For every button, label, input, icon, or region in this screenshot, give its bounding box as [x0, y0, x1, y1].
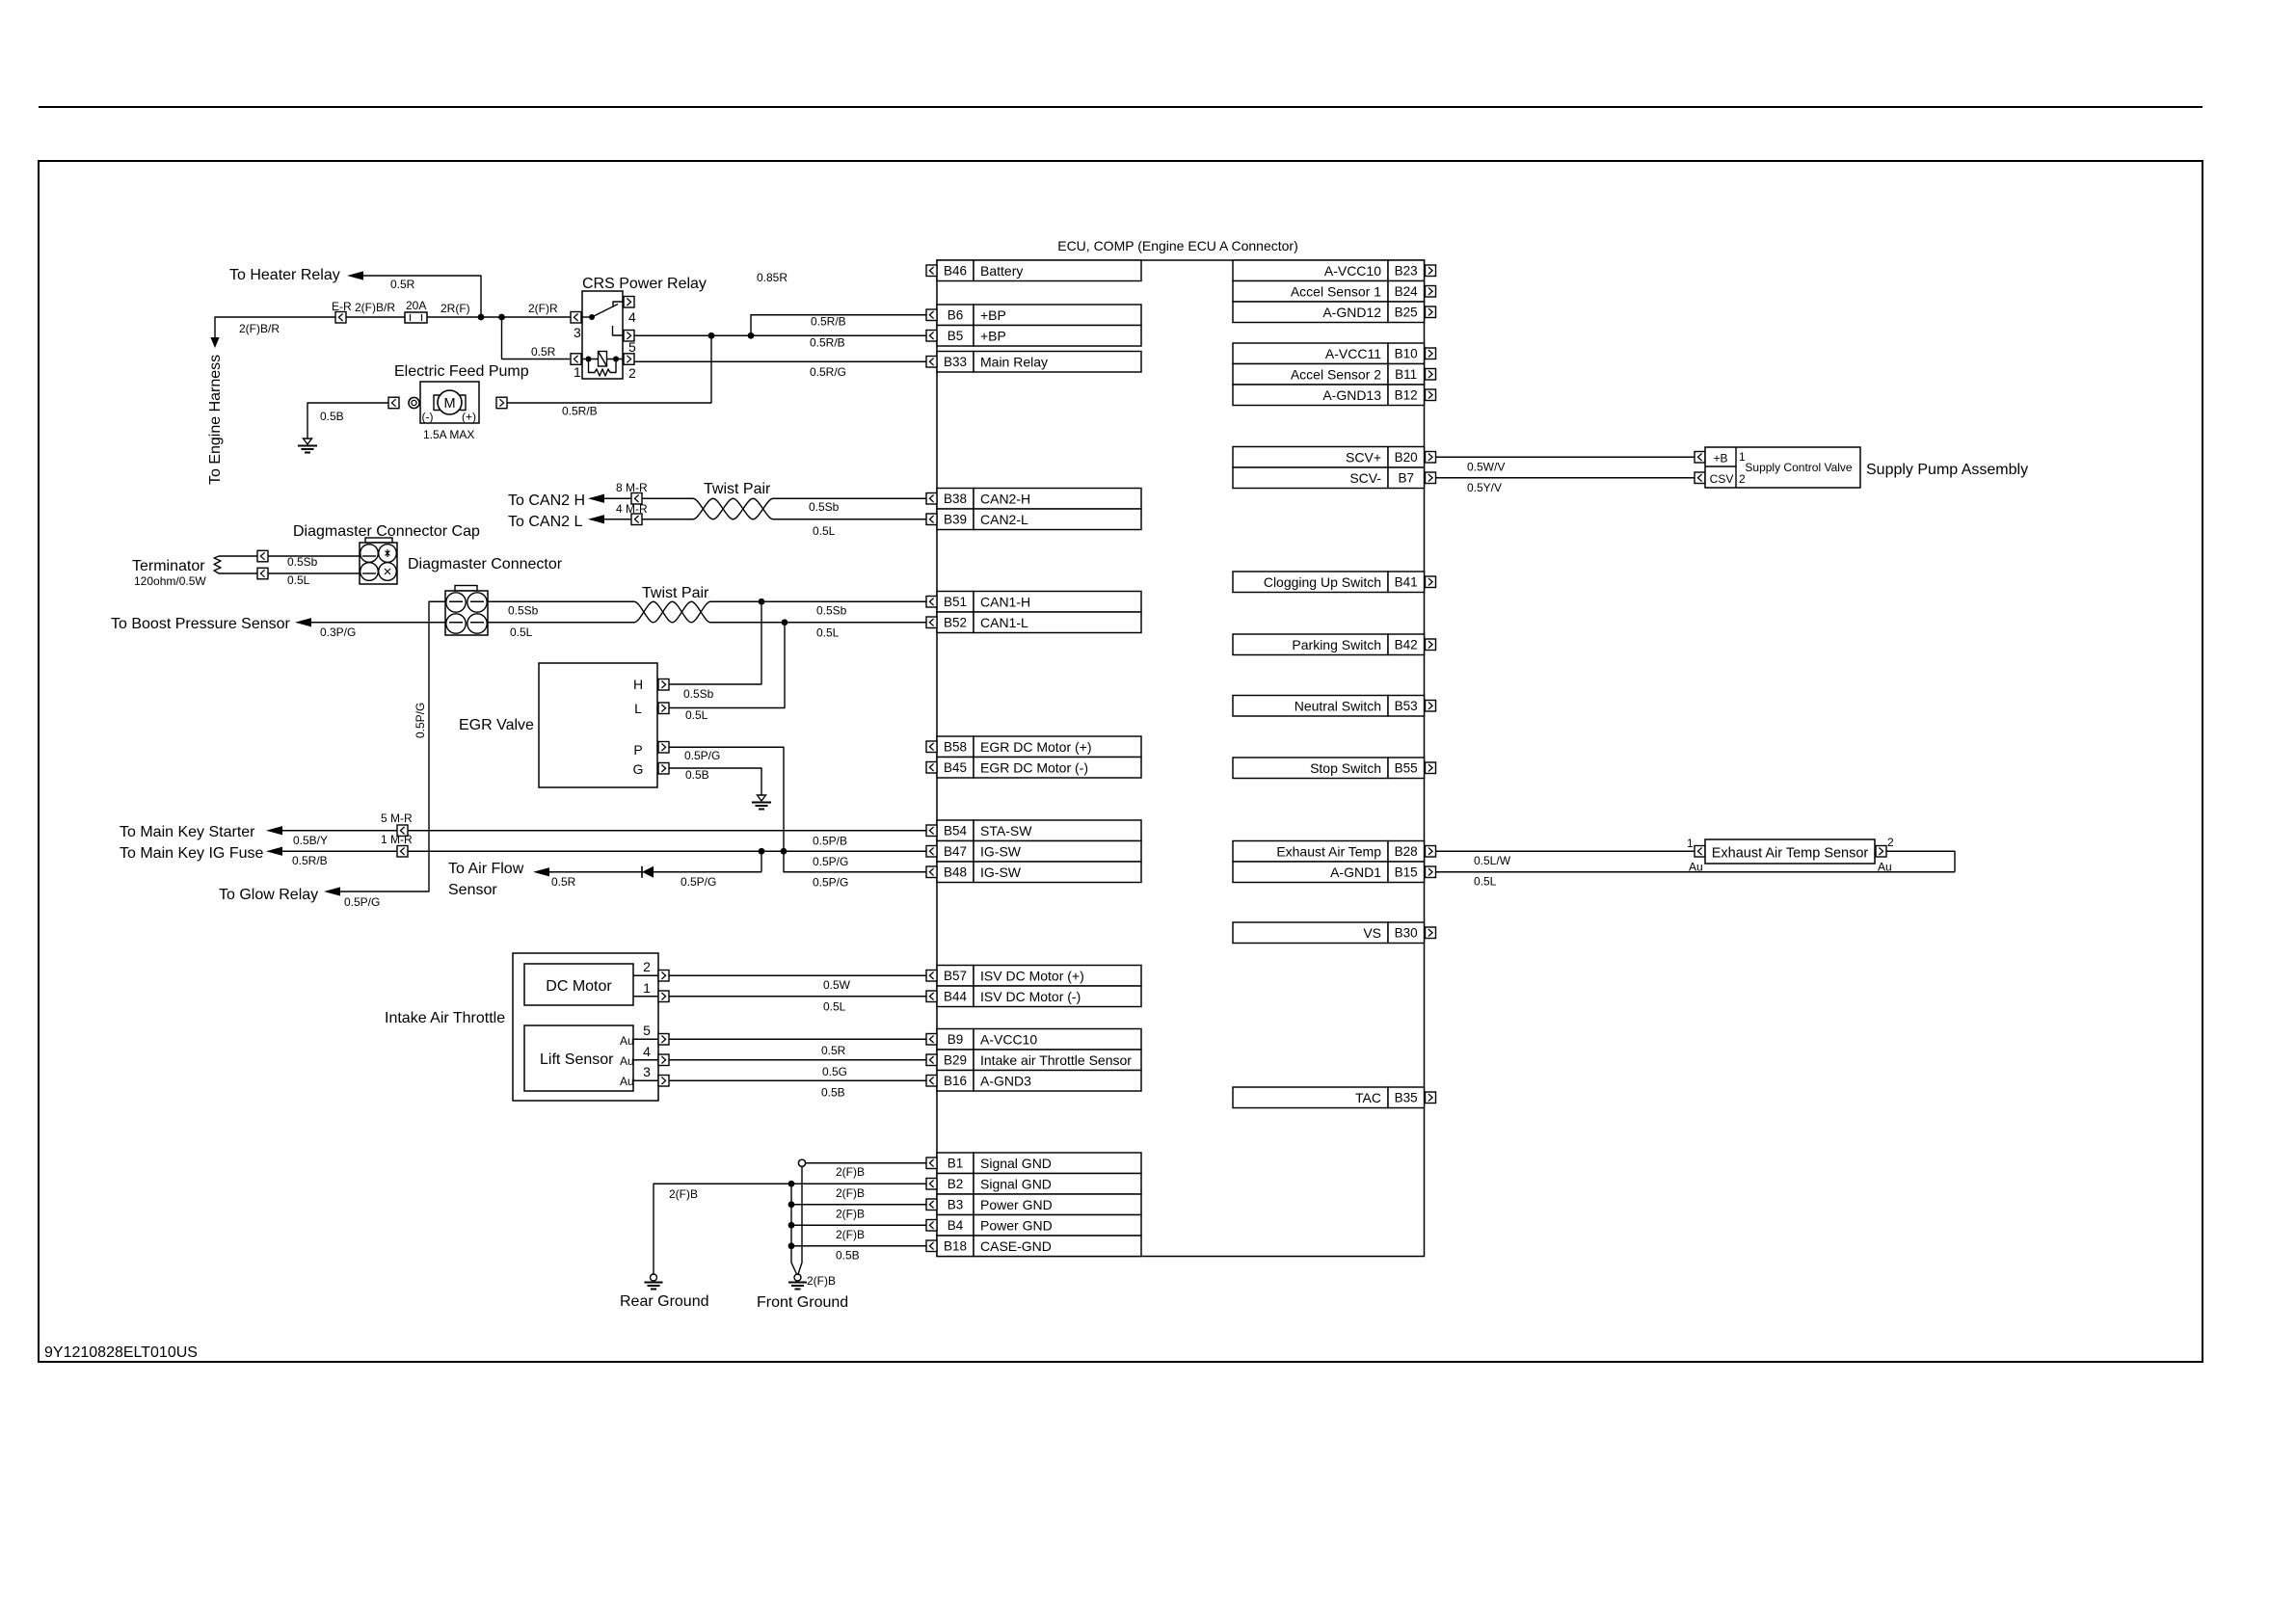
- pin B3 Power GND cell: [937, 1194, 1141, 1215]
- twist pair CAN1: [634, 601, 710, 623]
- wire diagmaster to twist CAN1 bottom: [488, 622, 634, 624]
- svg-text:0.5R: 0.5R: [821, 1044, 846, 1057]
- svg-text:Au: Au: [1878, 861, 1892, 874]
- pin B42 Parking Switch cell: [1233, 634, 1425, 655]
- svg-text:B47: B47: [944, 844, 967, 859]
- pin B30 connector: [1426, 927, 1436, 939]
- svg-text:ISV DC Motor (+): ISV DC Motor (+): [980, 969, 1084, 984]
- svg-text:5 M-R: 5 M-R: [381, 811, 413, 825]
- svg-text:0.5Sb: 0.5Sb: [816, 604, 847, 618]
- rear ground symbol: [645, 1274, 663, 1290]
- wire fuse to relay pin 3: [427, 316, 571, 318]
- pin B33 connector: [926, 357, 937, 368]
- wire junction B down to relay pin 1: [502, 317, 572, 359]
- svg-text:B51: B51: [944, 595, 967, 609]
- wire B3 power GND: [791, 1204, 926, 1206]
- svg-text:Front Ground: Front Ground: [757, 1294, 848, 1311]
- pin B45 connector: [926, 762, 937, 774]
- svg-text:DC Motor: DC Motor: [546, 978, 612, 995]
- svg-text:Signal GND: Signal GND: [980, 1156, 1052, 1171]
- pin B11 connector: [1426, 369, 1436, 381]
- svg-text:B46: B46: [944, 264, 967, 279]
- arrow boost pressure: [295, 618, 311, 626]
- EGR Valve U2 box: [539, 663, 657, 787]
- svg-text:0.5P/G: 0.5P/G: [414, 703, 427, 738]
- terminator top wire 0.5Sb: [219, 555, 257, 557]
- Exhaust Air Temp Sensor box: [1705, 839, 1875, 864]
- svg-text:Au: Au: [620, 1075, 634, 1088]
- svg-text:B9: B9: [948, 1032, 964, 1047]
- relay coil junction right: [613, 357, 619, 362]
- svg-text:To Main Key IG Fuse: To Main Key IG Fuse: [120, 845, 263, 862]
- svg-text:1: 1: [643, 980, 651, 996]
- svg-text:0.5P/G: 0.5P/G: [813, 855, 848, 868]
- svg-text:Electric Feed Pump: Electric Feed Pump: [394, 363, 529, 380]
- svg-text:To Air Flow: To Air Flow: [448, 861, 524, 877]
- pin B11 Accel Sensor 2 cell: [1233, 364, 1425, 386]
- pin B55 connector: [1426, 762, 1436, 774]
- svg-text:L: L: [634, 701, 642, 716]
- svg-text:A-VCC11: A-VCC11: [1325, 346, 1381, 361]
- pin B18 connector: [926, 1240, 937, 1252]
- svg-text:0.85R: 0.85R: [757, 271, 788, 284]
- pin B38 CAN2-H cell: [937, 489, 1141, 510]
- svg-text:4: 4: [628, 309, 636, 325]
- svg-text:0.5R: 0.5R: [531, 345, 556, 359]
- svg-text:To Glow Relay: To Glow Relay: [219, 887, 318, 903]
- svg-text:B58: B58: [944, 740, 967, 755]
- svg-text:B45: B45: [944, 760, 967, 775]
- DC motor pin 1 connector: [658, 991, 669, 1002]
- wire EGR P down through IG-SW wire to B48: [669, 747, 926, 872]
- ground for EGR valve: [752, 795, 771, 810]
- diagmaster connector cap symbol: [360, 538, 397, 584]
- pin B4 Power GND cell: [937, 1215, 1141, 1237]
- connector 5 M-R: [397, 825, 408, 837]
- svg-text:B15: B15: [1395, 865, 1418, 880]
- relay pin 4 connector: [624, 297, 634, 308]
- svg-text:2: 2: [628, 365, 636, 381]
- svg-text:CSV: CSV: [1710, 472, 1734, 486]
- svg-text:0.5R/B: 0.5R/B: [292, 854, 328, 867]
- arrow CAN2 L: [588, 515, 604, 523]
- pin B55 Stop Switch cell: [1233, 758, 1425, 779]
- pin B41 connector: [1426, 576, 1436, 588]
- svg-text:B29: B29: [944, 1053, 967, 1068]
- pump ring terminal: [409, 397, 419, 408]
- svg-text:B42: B42: [1395, 638, 1418, 652]
- wire lift 4 to B29: [669, 1059, 926, 1061]
- svg-text:B38: B38: [944, 492, 967, 506]
- wire STA-SW to B54: [408, 830, 926, 832]
- motor brush left: [434, 395, 440, 411]
- wire A-GND1 0.5L: [1436, 871, 1956, 873]
- pin B18 CASE-GND cell: [937, 1236, 1141, 1257]
- wire twist to B52: [710, 622, 926, 624]
- svg-text:0.5R/B: 0.5R/B: [562, 405, 598, 418]
- svg-text:0.5R: 0.5R: [390, 278, 415, 291]
- svg-text:0.5Sb: 0.5Sb: [287, 555, 318, 569]
- svg-text:2(F)B: 2(F)B: [807, 1274, 836, 1288]
- arrow to heater relay: [347, 271, 363, 279]
- pin B6 connector: [926, 309, 937, 321]
- svg-text:Au: Au: [620, 1034, 634, 1048]
- svg-text:Au: Au: [620, 1054, 634, 1068]
- lift sensor pin 4 stub: [633, 1059, 658, 1061]
- svg-text:Twist Pair: Twist Pair: [642, 585, 709, 601]
- svg-text:B35: B35: [1395, 1091, 1418, 1105]
- svg-text:2(F)B/R: 2(F)B/R: [355, 301, 395, 314]
- svg-text:Lift Sensor: Lift Sensor: [540, 1051, 614, 1068]
- connector 4 M-R: [631, 514, 642, 525]
- Lift Sensor box: [524, 1025, 633, 1091]
- svg-text:2(F)B: 2(F)B: [836, 1208, 865, 1221]
- EGR pin P connector: [658, 742, 669, 754]
- pin B33 Main Relay cell: [937, 352, 1141, 373]
- wire SCV- 0.5Y/V: [1436, 477, 1695, 479]
- pin B29 Intake air Throttle Sensor cell: [937, 1050, 1141, 1071]
- svg-text:0.5L: 0.5L: [510, 625, 533, 639]
- svg-text:3: 3: [574, 325, 581, 340]
- svg-text:5: 5: [643, 1023, 651, 1038]
- svg-text:0.5P/G: 0.5P/G: [681, 875, 716, 889]
- junction node B: [498, 314, 505, 321]
- arrow glow relay: [324, 887, 340, 895]
- svg-text:To Engine Harness: To Engine Harness: [207, 355, 224, 485]
- pin B52 CAN1-L cell: [937, 612, 1141, 633]
- relay pin 5 contact elbow: [613, 326, 625, 335]
- lift sensor pin 4 connector: [658, 1054, 669, 1066]
- svg-text:Signal GND: Signal GND: [980, 1177, 1052, 1192]
- svg-text:B33: B33: [944, 355, 967, 369]
- svg-text:Main Relay: Main Relay: [980, 355, 1048, 370]
- pin B28 Exhaust Air Temp cell: [1233, 841, 1425, 863]
- lift sensor pin 3 stub: [633, 1079, 658, 1081]
- junction IG wire and air flow riser: [759, 848, 765, 855]
- svg-text:20A: 20A: [406, 299, 426, 312]
- svg-text:CRS Power Relay: CRS Power Relay: [582, 276, 707, 292]
- svg-text:Clogging Up Switch: Clogging Up Switch: [1264, 574, 1381, 590]
- svg-text:IG-SW: IG-SW: [980, 844, 1022, 860]
- relay K1 CRS Power Relay box: [582, 291, 623, 379]
- pin B9 A-VCC10 cell: [937, 1029, 1141, 1051]
- svg-text:E-R: E-R: [332, 300, 352, 313]
- wire 0.5R to heater relay: [363, 276, 481, 317]
- pin B12 A-GND13 cell: [1233, 385, 1425, 406]
- svg-text:B10: B10: [1395, 347, 1418, 361]
- pin B47 connector: [926, 846, 937, 858]
- wire lift 3 to B16: [669, 1079, 926, 1081]
- pin B57 connector: [926, 971, 937, 982]
- pin B25 connector: [1426, 306, 1436, 318]
- svg-text:2(F)B: 2(F)B: [836, 1165, 865, 1179]
- svg-text:SCV+: SCV+: [1346, 450, 1381, 466]
- motor circle M: [438, 390, 462, 414]
- svg-text:STA-SW: STA-SW: [980, 823, 1032, 838]
- svg-text:A-GND12: A-GND12: [1322, 305, 1381, 320]
- pin B57 ISV DC Motor (+) cell: [937, 966, 1141, 987]
- svg-text:Diagmaster Connector: Diagmaster Connector: [408, 556, 563, 572]
- svg-text:Battery: Battery: [980, 263, 1023, 279]
- svg-text:0.5P/B: 0.5P/B: [813, 835, 847, 848]
- svg-text:Power GND: Power GND: [980, 1197, 1053, 1212]
- svg-text:H: H: [633, 677, 643, 692]
- pin B1 Signal GND cell: [937, 1153, 1141, 1174]
- pin B41 Clogging Up Switch cell: [1233, 572, 1425, 593]
- wire EGR G to ground: [669, 768, 761, 795]
- pin B54 connector: [926, 825, 937, 837]
- pin B39 connector: [926, 514, 937, 525]
- pin B2 connector: [926, 1179, 937, 1190]
- svg-text:0.5W/V: 0.5W/V: [1467, 461, 1505, 474]
- svg-text:B18: B18: [944, 1239, 967, 1254]
- svg-text:0.5B: 0.5B: [320, 410, 344, 423]
- svg-text:B5: B5: [948, 329, 964, 343]
- svg-text:0.5B/Y: 0.5B/Y: [293, 834, 328, 847]
- svg-text:A-GND1: A-GND1: [1330, 865, 1381, 880]
- svg-text:G: G: [633, 761, 644, 777]
- svg-text:B20: B20: [1395, 450, 1418, 465]
- svg-text:B3: B3: [948, 1198, 964, 1212]
- svg-text:2(F)B: 2(F)B: [669, 1187, 698, 1201]
- svg-text:0.5P/G: 0.5P/G: [344, 895, 380, 909]
- EGR pin L connector: [658, 703, 669, 714]
- svg-text:A-GND13: A-GND13: [1322, 387, 1381, 403]
- lift sensor pin 5 connector: [658, 1034, 669, 1046]
- svg-text:0.5B: 0.5B: [685, 768, 709, 782]
- pin B7 connector: [1426, 472, 1436, 484]
- electric feed pump M1 box: [420, 382, 479, 423]
- svg-text:CAN2-L: CAN2-L: [980, 512, 1028, 527]
- pin B25 A-GND12 cell: [1233, 302, 1425, 323]
- pin B16 connector: [926, 1076, 937, 1087]
- svg-text:0.5L: 0.5L: [1474, 875, 1497, 889]
- pin B24 Accel Sensor 1 cell: [1233, 281, 1425, 303]
- junction to B6: [748, 333, 755, 339]
- wire IG-SW to B47: [408, 850, 926, 852]
- terminator bottom wire 0.5L: [219, 572, 257, 574]
- pin B52 connector: [926, 617, 937, 628]
- relay pin 4 contact step: [613, 302, 624, 307]
- svg-text:2(F)B: 2(F)B: [836, 1186, 865, 1200]
- pin B48 IG-SW cell: [937, 862, 1141, 883]
- riser air flow wire to IG wire: [761, 851, 762, 872]
- pin B54 STA-SW cell: [937, 820, 1141, 841]
- terminator resistor zigzag: [214, 556, 221, 573]
- relay switch contact dot: [589, 314, 595, 320]
- wire EGR H to CAN1-H: [669, 601, 761, 684]
- To Engine Harness branch wire: [215, 317, 335, 337]
- svg-text:EGR Valve: EGR Valve: [459, 717, 534, 733]
- svg-text:Au: Au: [1689, 861, 1703, 874]
- svg-text:Neutral Switch: Neutral Switch: [1295, 699, 1381, 714]
- pin B45 EGR DC Motor (-) cell: [937, 758, 1141, 779]
- svg-text:2(F)R: 2(F)R: [528, 302, 558, 315]
- svg-text:Twist Pair: Twist Pair: [704, 481, 771, 497]
- svg-text:+B: +B: [1713, 452, 1727, 466]
- wire B18 case GND: [791, 1245, 926, 1247]
- svg-text:2R(F): 2R(F): [441, 302, 470, 315]
- svg-text:2: 2: [643, 959, 651, 974]
- terminator top connector: [257, 550, 268, 562]
- lift sensor pin 3 connector: [658, 1076, 669, 1087]
- pin B15 A-GND1 cell: [1233, 862, 1425, 883]
- relay switch common stub: [581, 316, 592, 318]
- svg-text:2(F)B: 2(F)B: [836, 1228, 865, 1241]
- front ground vertical left: [791, 1184, 797, 1274]
- svg-text:Accel Sensor 1: Accel Sensor 1: [1291, 284, 1381, 300]
- pin B38 connector: [926, 493, 937, 505]
- EGR pin G connector: [658, 763, 669, 775]
- svg-text:B55: B55: [1395, 761, 1418, 776]
- pin B15 connector: [1426, 866, 1436, 878]
- svg-text:B28: B28: [1395, 844, 1418, 859]
- svg-text:0.5Y/V: 0.5Y/V: [1467, 481, 1502, 494]
- svg-text:B6: B6: [948, 308, 964, 323]
- svg-text:Intake air Throttle Sensor: Intake air Throttle Sensor: [980, 1052, 1132, 1068]
- junction IG wire and EGR P: [781, 848, 788, 855]
- svg-text:VS: VS: [1363, 925, 1381, 941]
- pin B5 connector: [926, 331, 937, 342]
- pin B51 CAN1-H cell: [937, 592, 1141, 613]
- svg-text:0.5P/G: 0.5P/G: [813, 876, 848, 890]
- svg-text:A-GND3: A-GND3: [980, 1074, 1031, 1089]
- wire exhaust sensor return loop: [1886, 851, 1955, 872]
- svg-text:0.5Sb: 0.5Sb: [809, 500, 840, 514]
- pin B12 connector: [1426, 389, 1436, 401]
- svg-text:Exhaust Air Temp: Exhaust Air Temp: [1276, 844, 1381, 860]
- svg-text:4: 4: [643, 1044, 651, 1059]
- pin B23 A-VCC10 cell: [1233, 260, 1425, 281]
- wire EGR L to CAN1-L: [669, 623, 785, 708]
- pin B20 SCV+ cell: [1233, 447, 1425, 468]
- ground for feed pump: [298, 439, 317, 453]
- wire IG-SW left part: [282, 850, 397, 852]
- wire ISV+ to B57: [669, 974, 926, 976]
- Intake Air Throttle assembly box: [513, 953, 658, 1101]
- svg-text:+BP: +BP: [980, 307, 1006, 323]
- pin B35 connector: [1426, 1092, 1436, 1104]
- svg-text:A-VCC10: A-VCC10: [1324, 263, 1381, 279]
- diode D1: [642, 866, 654, 878]
- svg-text:CAN1-H: CAN1-H: [980, 595, 1030, 610]
- svg-text:B24: B24: [1395, 284, 1419, 299]
- svg-text:Supply Control Valve: Supply Control Valve: [1745, 461, 1852, 474]
- relay pin 5 connector: [624, 331, 634, 342]
- wire E-R to fuse: [346, 316, 405, 318]
- svg-text:2: 2: [1739, 472, 1746, 486]
- Supply Control Valve box: [1705, 447, 1860, 488]
- pin B35 TAC cell: [1233, 1087, 1425, 1108]
- svg-text:0.5B: 0.5B: [836, 1249, 860, 1263]
- svg-text:0.5R: 0.5R: [551, 875, 576, 889]
- svg-text:0.5Sb: 0.5Sb: [683, 687, 714, 701]
- pin B53 connector: [1426, 701, 1436, 712]
- pin B58 EGR DC Motor (+) cell: [937, 736, 1141, 758]
- wire pump to relay branch 0.5R/B: [507, 335, 711, 403]
- page border frame: [39, 161, 2203, 1362]
- svg-text:1: 1: [574, 364, 581, 380]
- connector E-R: [335, 312, 346, 324]
- wire to cap top: [268, 555, 360, 557]
- wire lift 5 to B9: [669, 1038, 926, 1040]
- svg-text:5: 5: [628, 339, 636, 355]
- wire to cap bottom: [268, 572, 360, 574]
- junction B3: [788, 1201, 795, 1208]
- svg-text:IG-SW: IG-SW: [980, 865, 1022, 880]
- DC motor pin 1 stub: [633, 996, 658, 998]
- wire B1 signal GND: [806, 1162, 926, 1164]
- exhaust sensor pin 2 connector: [1876, 846, 1886, 858]
- wire air flow diode to riser: [654, 871, 761, 873]
- svg-text:B44: B44: [944, 990, 968, 1004]
- arrow main key IG fuse: [266, 847, 282, 856]
- relay switch blade: [592, 305, 618, 318]
- svg-text:ISV DC Motor (-): ISV DC Motor (-): [980, 989, 1081, 1004]
- arrow CAN2 H: [588, 494, 604, 503]
- svg-text:P: P: [633, 742, 642, 758]
- svg-text:120ohm/0.5W: 120ohm/0.5W: [134, 574, 206, 588]
- svg-text:Stop Switch: Stop Switch: [1310, 760, 1381, 776]
- svg-text:0.5L: 0.5L: [823, 1000, 846, 1014]
- svg-text:B23: B23: [1395, 264, 1418, 279]
- svg-text:CAN2-H: CAN2-H: [980, 492, 1030, 507]
- svg-text:B39: B39: [944, 513, 967, 527]
- pump left connector: [388, 397, 399, 409]
- junction CAN1-L to EGR L: [782, 619, 788, 625]
- pin B2 Signal GND cell: [937, 1174, 1141, 1195]
- wire CAN2-H left of connector: [604, 497, 631, 499]
- svg-text:Power GND: Power GND: [980, 1218, 1053, 1234]
- pin B7 SCV- cell: [1233, 467, 1425, 489]
- pin B39 CAN2-L cell: [937, 509, 1141, 530]
- pin B10 A-VCC11 cell: [1233, 343, 1425, 364]
- wire diagmaster pin to glow relay vertical 0.5P/G: [340, 601, 445, 891]
- svg-text:EGR DC Motor (-): EGR DC Motor (-): [980, 760, 1088, 776]
- front ground symbol: [788, 1274, 807, 1290]
- connector 1 M-R: [397, 846, 408, 858]
- svg-text:Intake Air Throttle: Intake Air Throttle: [385, 1010, 505, 1026]
- svg-text:0.5R/B: 0.5R/B: [811, 315, 846, 329]
- svg-text:To Heater Relay: To Heater Relay: [229, 267, 340, 283]
- wire CAN2-L left of connector: [604, 519, 631, 520]
- svg-text:B48: B48: [944, 865, 967, 880]
- pin B10 connector: [1426, 348, 1436, 359]
- wire twist to B38: [773, 497, 926, 499]
- DC motor pin 2 stub: [633, 974, 658, 976]
- svg-text:B4: B4: [948, 1218, 964, 1233]
- pin B46 connector: [926, 265, 937, 277]
- svg-text:0.5L: 0.5L: [287, 573, 310, 587]
- svg-text:0.5Sb: 0.5Sb: [508, 604, 539, 618]
- pin B1 connector: [926, 1157, 937, 1169]
- pin B46 Battery cell: [937, 260, 1141, 281]
- wire B4 power GND: [791, 1224, 926, 1226]
- svg-text:To Main Key Starter: To Main Key Starter: [120, 824, 255, 840]
- wire exhaust air temp 0.5L/W: [1436, 850, 1695, 852]
- relay pin 2 connector: [624, 354, 634, 365]
- wire twist to B51: [710, 600, 926, 602]
- svg-text:1 M-R: 1 M-R: [381, 833, 413, 846]
- pin B51 connector: [926, 597, 937, 608]
- svg-text:2: 2: [1887, 836, 1894, 849]
- svg-text:Accel Sensor 2: Accel Sensor 2: [1291, 367, 1381, 383]
- arrow down to engine harness: [210, 337, 219, 348]
- pin B28 connector: [1426, 846, 1436, 858]
- wire air flow left of diode: [549, 871, 642, 873]
- arrow main key starter: [266, 826, 282, 835]
- svg-text:Terminator: Terminator: [132, 558, 205, 574]
